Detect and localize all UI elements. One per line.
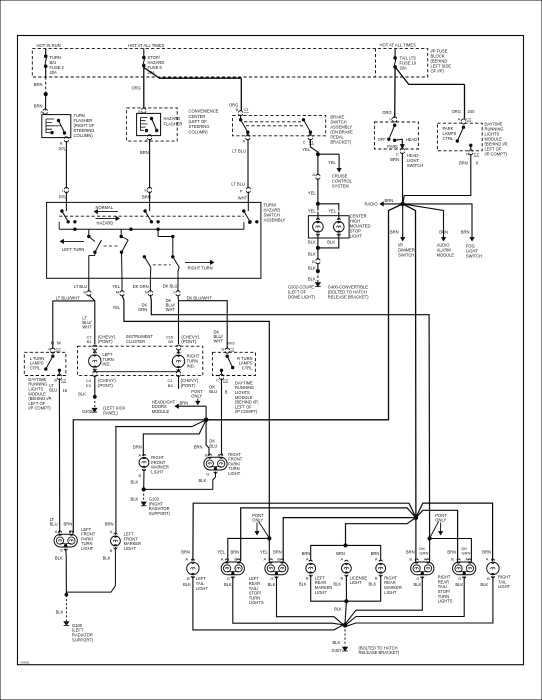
svg-text:BLK: BLK — [299, 582, 307, 587]
svg-text:GRN: GRN — [138, 307, 147, 312]
svg-text:BLK: BLK — [334, 607, 342, 612]
svg-text:ONLY: ONLY — [435, 518, 446, 523]
svg-text:GRN: GRN — [419, 550, 428, 555]
svg-text:J: J — [145, 138, 147, 143]
svg-text:C2: C2 — [61, 378, 66, 383]
svg-text:BRN: BRN — [336, 551, 345, 556]
svg-text:I/P COMPT): I/P COMPT) — [28, 406, 51, 411]
svg-text:A: A — [264, 556, 267, 561]
svg-text:LEFT TURN: LEFT TURN — [62, 247, 84, 252]
svg-text:(PONT): (PONT) — [98, 383, 113, 388]
svg-text:BRN: BRN — [459, 161, 468, 166]
svg-text:B: B — [83, 290, 86, 295]
svg-text:BRN: BRN — [371, 551, 380, 556]
svg-text:SWITCH: SWITCH — [466, 253, 482, 258]
svg-text:G407: G407 — [332, 648, 343, 653]
svg-text:SUPPORT): SUPPORT) — [149, 511, 171, 516]
svg-text:(PONT): (PONT) — [98, 339, 113, 344]
svg-text:RELEASE BRACKET): RELEASE BRACKET) — [359, 650, 400, 655]
svg-text:BRN: BRN — [133, 444, 142, 449]
svg-text:OF I/P): OF I/P) — [431, 68, 445, 73]
svg-text:BRN: BRN — [34, 103, 43, 108]
svg-text:A: A — [306, 556, 309, 561]
svg-text:B: B — [306, 576, 309, 581]
svg-text:BLK: BLK — [308, 239, 316, 244]
svg-text:P: P — [240, 189, 243, 194]
svg-text:LT BLU/WHT: LT BLU/WHT — [56, 295, 80, 300]
svg-text:SYSTEM: SYSTEM — [332, 183, 349, 188]
svg-text:COLUMN): COLUMN) — [74, 133, 94, 138]
svg-text:A: A — [110, 529, 113, 534]
svg-text:LIGHT: LIGHT — [151, 469, 164, 474]
svg-text:LIGHTS: LIGHTS — [249, 600, 264, 605]
svg-text:M: M — [51, 340, 55, 345]
svg-text:G: G — [458, 576, 461, 581]
svg-text:BLK: BLK — [198, 478, 206, 483]
svg-text:BRN: BRN — [439, 229, 448, 234]
svg-text:SWITCH: SWITCH — [398, 253, 414, 258]
svg-text:BLK: BLK — [131, 497, 139, 502]
svg-text:E: E — [138, 109, 141, 114]
svg-text:BRN: BRN — [64, 521, 73, 526]
svg-text:YEL: YEL — [217, 550, 226, 555]
svg-text:I/P COMPT): I/P COMPT) — [235, 409, 258, 414]
svg-text:SWITCH: SWITCH — [407, 163, 423, 168]
svg-text:B1: B1 — [87, 339, 92, 344]
svg-text:CTRL: CTRL — [242, 365, 253, 370]
svg-text:YEL: YEL — [308, 208, 317, 213]
svg-text:HAZARD: HAZARD — [164, 116, 181, 121]
svg-text:A: A — [139, 452, 142, 457]
svg-text:BRN: BRN — [390, 229, 399, 234]
svg-text:BRN: BRN — [406, 550, 415, 555]
svg-text:BLK: BLK — [308, 251, 316, 256]
svg-text:J: J — [173, 290, 175, 295]
svg-text:NORMAL: NORMAL — [96, 205, 114, 210]
svg-text:H53411: H53411 — [21, 660, 30, 664]
svg-text:PARK: PARK — [387, 144, 398, 149]
svg-text:LIGHT: LIGHT — [350, 234, 363, 239]
svg-text:BRN: BRN — [194, 444, 203, 449]
svg-text:BRN: BRN — [180, 401, 189, 406]
svg-text:240: 240 — [468, 109, 476, 114]
svg-text:G: G — [221, 346, 224, 351]
svg-text:BLK: BLK — [333, 582, 341, 587]
svg-text:B: B — [341, 576, 344, 581]
svg-text:YEL: YEL — [112, 284, 120, 289]
svg-text:WHT: WHT — [166, 307, 176, 312]
svg-text:G: G — [416, 576, 419, 581]
svg-text:ASSEMBLY: ASSEMBLY — [264, 218, 286, 223]
svg-text:DK GRN: DK GRN — [133, 284, 149, 289]
svg-text:A: A — [458, 116, 461, 121]
svg-text:BLK: BLK — [78, 391, 86, 396]
svg-text:B: B — [236, 107, 239, 112]
svg-text:C2: C2 — [474, 151, 479, 156]
svg-text:YEL: YEL — [328, 160, 337, 165]
svg-text:A: A — [185, 556, 188, 561]
svg-text:LT BLU: LT BLU — [232, 148, 246, 153]
svg-text:A: A — [221, 556, 224, 561]
svg-text:LIGHT: LIGHT — [315, 590, 328, 595]
svg-text:BRN: BRN — [302, 551, 311, 556]
svg-text:CTRL: CTRL — [30, 365, 41, 370]
svg-text:LIGHT: LIGHT — [350, 580, 363, 585]
svg-text:C2: C2 — [56, 346, 61, 351]
svg-text:ONLY: ONLY — [191, 394, 202, 399]
svg-text:GRN: GRN — [461, 550, 470, 555]
svg-text:YEL: YEL — [302, 147, 311, 152]
svg-text:CTRL: CTRL — [443, 136, 454, 141]
svg-text:C2: C2 — [466, 116, 471, 121]
svg-text:B: B — [110, 548, 113, 553]
svg-text:HOT IN RUN: HOT IN RUN — [37, 43, 61, 48]
svg-text:OFF: OFF — [378, 137, 387, 142]
svg-text:YEL: YEL — [260, 550, 269, 555]
svg-text:B: B — [60, 141, 63, 146]
svg-text:C: C — [216, 377, 219, 382]
svg-text:20A: 20A — [400, 66, 408, 71]
svg-text:BLK: BLK — [268, 582, 276, 587]
svg-text:DOME LIGHT): DOME LIGHT) — [288, 295, 315, 300]
svg-text:B: B — [312, 259, 315, 264]
svg-text:WHT: WHT — [82, 325, 92, 330]
svg-text:PPL: PPL — [59, 147, 68, 152]
svg-text:C: C — [396, 152, 399, 157]
svg-text:WHT: WHT — [214, 339, 224, 344]
svg-text:B: B — [277, 556, 280, 561]
svg-text:BRN: BRN — [447, 550, 456, 555]
svg-text:FLASHER: FLASHER — [164, 122, 183, 127]
svg-text:B: B — [187, 576, 190, 581]
svg-text:SUPPORT): SUPPORT) — [72, 637, 94, 642]
svg-text:MODULE: MODULE — [152, 409, 170, 414]
svg-text:B: B — [225, 389, 228, 394]
svg-text:LIGHT: LIGHT — [81, 546, 94, 551]
svg-text:BRN: BRN — [231, 550, 240, 555]
svg-text:(PONT): (PONT) — [181, 383, 196, 388]
svg-text:BLU: BLU — [209, 443, 217, 448]
svg-text:(PONT): (PONT) — [181, 339, 196, 344]
svg-text:C2: C2 — [229, 346, 234, 351]
svg-text:BRACKET): BRACKET) — [330, 140, 351, 145]
svg-text:B: B — [451, 556, 454, 561]
svg-text:PANEL): PANEL) — [103, 410, 118, 415]
svg-text:B: B — [205, 452, 208, 457]
svg-text:BLK: BLK — [224, 582, 232, 587]
svg-text:BLK: BLK — [103, 555, 111, 560]
svg-text:WHT: WHT — [238, 196, 248, 201]
svg-text:BLK: BLK — [308, 265, 316, 270]
svg-text:BLK: BLK — [413, 582, 421, 587]
svg-text:IND.: IND. — [102, 362, 110, 367]
svg-text:W/S: W/S — [227, 341, 235, 346]
svg-text:BRN: BRN — [181, 550, 190, 555]
svg-text:LIGHT: LIGHT — [498, 584, 511, 589]
svg-text:BLK: BLK — [131, 479, 139, 484]
svg-text:C: C — [303, 140, 306, 145]
svg-text:B: B — [375, 576, 378, 581]
svg-text:B: B — [54, 378, 57, 383]
svg-text:BLK: BLK — [332, 640, 340, 645]
svg-text:H: H — [389, 116, 392, 121]
svg-text:16: 16 — [63, 388, 68, 393]
svg-text:G: G — [271, 576, 274, 581]
svg-text:ONLY: ONLY — [252, 518, 263, 523]
svg-text:BLU: BLU — [209, 389, 217, 394]
svg-text:A: A — [341, 556, 344, 561]
svg-text:HEAD: HEAD — [406, 137, 417, 142]
svg-text:BRN: BRN — [390, 157, 399, 162]
svg-text:I/P COMPT): I/P COMPT) — [485, 151, 508, 156]
svg-text:ORG: ORG — [131, 86, 140, 91]
svg-text:A: A — [375, 556, 378, 561]
svg-text:B5: B5 — [168, 339, 174, 344]
svg-text:IND.: IND. — [187, 363, 195, 368]
svg-text:CLUSTER: CLUSTER — [126, 339, 145, 344]
svg-text:C1: C1 — [244, 107, 249, 112]
svg-text:N: N — [145, 290, 148, 295]
svg-text:HOT AT ALL TIMES: HOT AT ALL TIMES — [128, 43, 165, 48]
svg-text:HAZARD: HAZARD — [97, 221, 114, 226]
svg-text:C2: C2 — [223, 377, 228, 382]
svg-text:A: A — [465, 556, 468, 561]
svg-text:BRN: BRN — [273, 550, 282, 555]
svg-text:RELEASE BRACKET): RELEASE BRACKET) — [328, 295, 369, 300]
svg-text:BLK: BLK — [308, 276, 316, 281]
svg-text:B3: B3 — [168, 383, 174, 388]
svg-text:M: M — [57, 340, 61, 345]
svg-text:G: G — [206, 471, 209, 476]
svg-text:LIGHT: LIGHT — [124, 546, 137, 551]
svg-text:YEL: YEL — [328, 208, 337, 213]
svg-text:BLK: BLK — [327, 239, 335, 244]
svg-text:20A: 20A — [50, 70, 58, 75]
svg-text:B: B — [139, 473, 142, 478]
svg-text:C1: C1 — [309, 140, 314, 145]
svg-text:LIGHTS: LIGHTS — [438, 599, 453, 604]
svg-text:BLK: BLK — [183, 582, 191, 587]
svg-text:BLK: BLK — [369, 582, 377, 587]
svg-text:DK BLU/WHT: DK BLU/WHT — [187, 295, 213, 300]
svg-text:BLK: BLK — [455, 582, 463, 587]
svg-text:BRN: BRN — [482, 550, 491, 555]
svg-text:A: A — [55, 529, 58, 534]
svg-text:E3: E3 — [86, 383, 92, 388]
svg-text:RIGHT TURN: RIGHT TURN — [188, 266, 213, 271]
svg-text:RADIO: RADIO — [364, 202, 378, 207]
svg-text:G200: G200 — [82, 409, 93, 414]
svg-text:LT BLU: LT BLU — [231, 181, 245, 186]
svg-text:ORG: ORG — [452, 109, 461, 114]
svg-text:A: A — [312, 172, 315, 177]
svg-text:ORG: ORG — [382, 110, 391, 115]
svg-text:BRN: BRN — [461, 229, 470, 234]
svg-text:BLK: BLK — [480, 582, 488, 587]
svg-text:LIGHT: LIGHT — [196, 586, 209, 591]
svg-text:M: M — [116, 290, 119, 295]
svg-text:MODULE: MODULE — [437, 253, 455, 258]
svg-text:BRN: BRN — [105, 521, 114, 526]
svg-text:B: B — [409, 556, 412, 561]
svg-text:B: B — [487, 576, 490, 581]
svg-text:A: A — [486, 556, 489, 561]
svg-text:LIGHT: LIGHT — [228, 471, 241, 476]
svg-text:K: K — [145, 188, 148, 193]
svg-text:BLU: BLU — [50, 522, 58, 527]
svg-text:YEL: YEL — [113, 305, 121, 310]
svg-text:BLK: BLK — [56, 609, 64, 614]
svg-text:G: G — [60, 547, 63, 552]
svg-text:BRN: BRN — [385, 198, 394, 203]
svg-text:BLK: BLK — [55, 555, 63, 560]
svg-text:BLU: BLU — [49, 388, 57, 393]
svg-text:BRN: BRN — [140, 150, 149, 155]
svg-text:LT BLU: LT BLU — [74, 284, 88, 289]
svg-text:BRN: BRN — [34, 82, 43, 87]
svg-text:A: A — [424, 556, 427, 561]
svg-text:HOT AT ALL TIMES: HOT AT ALL TIMES — [380, 42, 417, 47]
svg-text:DK BLU: DK BLU — [163, 284, 178, 289]
svg-text:A: A — [243, 138, 246, 143]
svg-text:YEL: YEL — [308, 191, 317, 196]
svg-text:LIGHT: LIGHT — [384, 590, 397, 595]
svg-text:COLUMN): COLUMN) — [189, 129, 209, 134]
svg-text:G: G — [227, 576, 230, 581]
